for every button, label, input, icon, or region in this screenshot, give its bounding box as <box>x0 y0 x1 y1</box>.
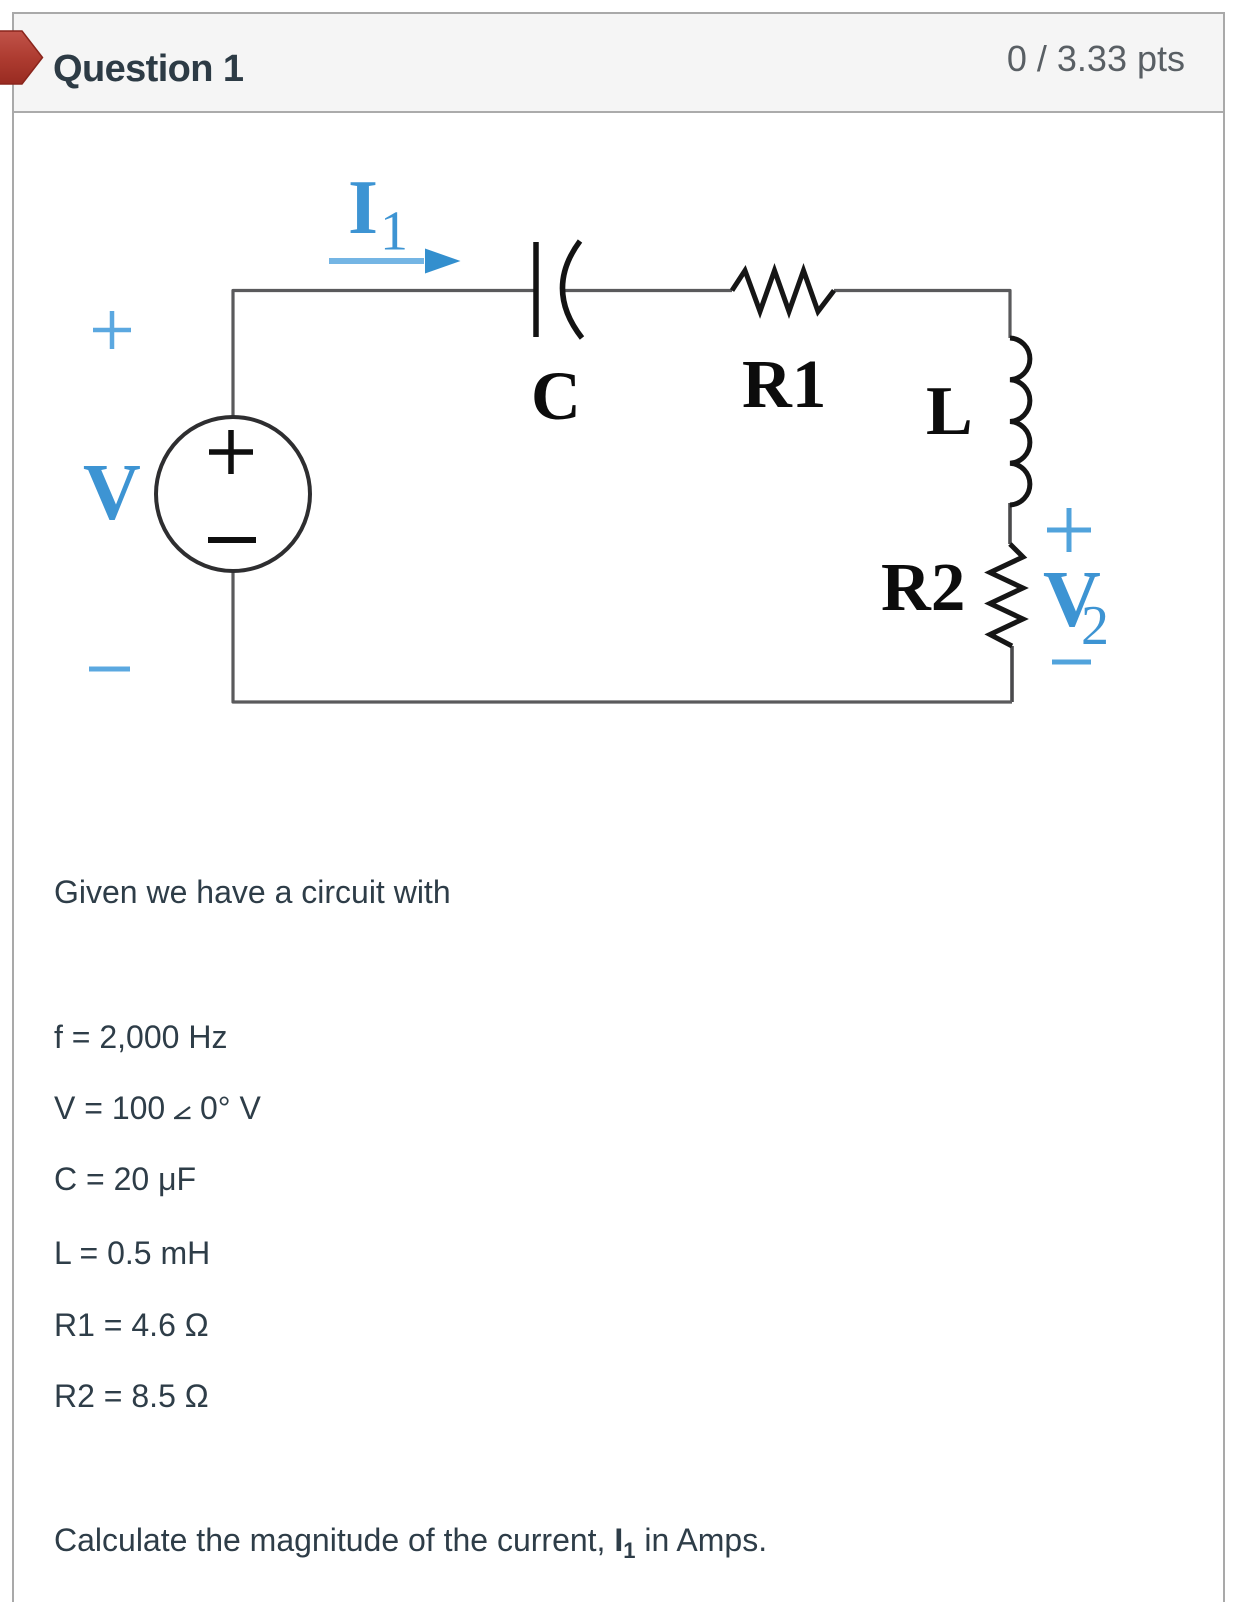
wire: below R2 to bottom-right corner <box>1010 646 1014 702</box>
minus polarity of V2 (blue, right) <box>1052 660 1091 665</box>
inductor L coils <box>1010 338 1030 505</box>
plus sign inside source <box>209 430 253 474</box>
wire: top-left from node A to capacitor, with left vertical down to source <box>233 291 535 417</box>
angle symbol in V = 100 ∠ 0° V <box>174 1106 193 1120</box>
header bar <box>14 14 1223 113</box>
wire: R1 to top-right corner, down to inductor <box>834 291 1010 339</box>
current direction arrow I1 <box>329 258 424 264</box>
svg-text:2: 2 <box>1081 595 1109 657</box>
wire: bottom rail and left vertical up to source bottom <box>233 572 1012 702</box>
capacitor C right plate (curved) <box>562 241 582 338</box>
svg-text:R1: R1 <box>742 346 826 422</box>
wire: between inductor L and resistor R2 <box>1008 503 1012 544</box>
question body text <box>54 876 451 908</box>
red question-marker arrow <box>0 0 60 100</box>
minus sign inside source <box>208 537 256 543</box>
plus polarity of V2 (blue, right) <box>1047 508 1091 552</box>
svg-text:C: C <box>531 358 581 434</box>
plus polarity of V (blue, upper-left) <box>93 311 131 349</box>
svg-text:L: L <box>926 373 973 450</box>
wire: capacitor right plate to resistor R1 <box>564 289 732 292</box>
resistor R2 zigzag <box>990 544 1023 646</box>
voltage source V (circle) <box>156 417 310 571</box>
svg-text:1: 1 <box>380 201 408 263</box>
minus polarity of V (blue, lower-left) <box>89 667 130 672</box>
capacitor C left plate <box>533 242 539 337</box>
resistor R1 zigzag <box>732 271 834 312</box>
svg-text:I: I <box>348 164 378 250</box>
svg-text:V: V <box>83 449 141 537</box>
svg-text:R2: R2 <box>881 549 965 625</box>
